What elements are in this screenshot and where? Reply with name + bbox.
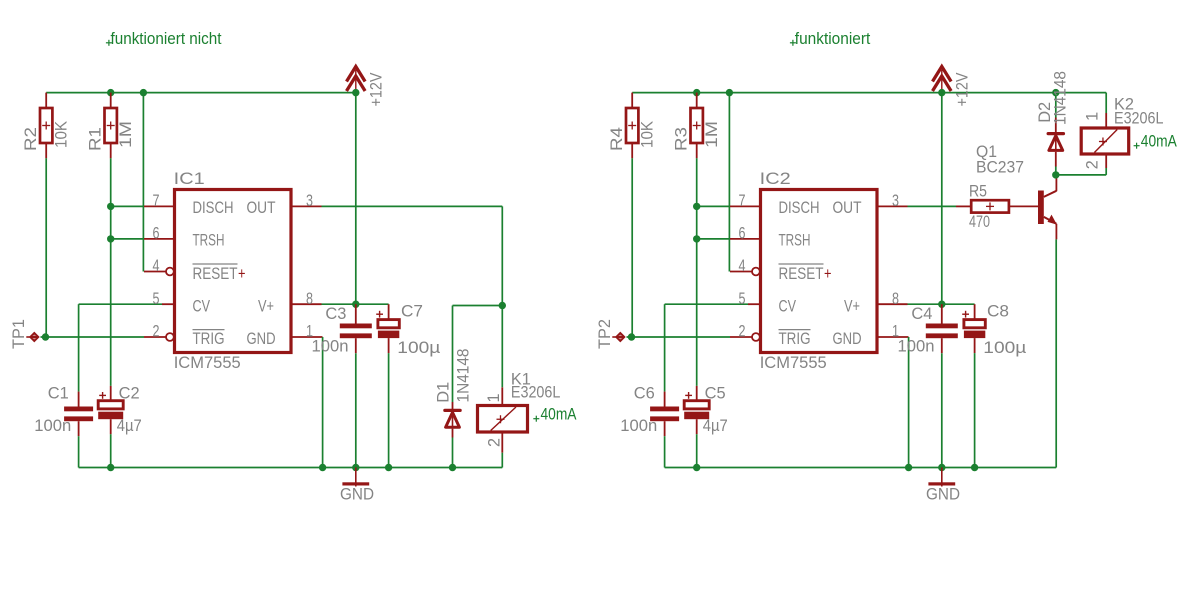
wire C7 bottom to ground rail (388, 353, 390, 467)
test point TP2 label (595, 319, 614, 349)
capacitor C5 negative plate (684, 412, 709, 420)
wire TRSH to IC2 pin 6 (697, 238, 730, 240)
title text 'funktioniert' (795, 29, 871, 48)
relay K2 label (1114, 94, 1134, 113)
diode D2 label (1035, 102, 1054, 123)
resistor R2 top pin (45, 93, 47, 108)
capacitor C7 label (401, 301, 423, 320)
svg-text:DISCH: DISCH (193, 198, 234, 217)
IC IC1 pin number 7 (153, 191, 160, 210)
wire R1/DISCH/TRSH column (110, 158, 112, 386)
resistor R3 origin cross (693, 122, 701, 130)
IC IC2 pin number 4 (739, 256, 746, 275)
IC IC2 pin 8 stub (877, 303, 908, 305)
wire C8 bottom to ground rail (974, 353, 976, 467)
IC IC2 pin 5 stub (748, 303, 761, 305)
capacitor C6 top plate (650, 407, 679, 412)
wire D1 bottom to ground rail (452, 438, 454, 468)
test point TP2 symbol (612, 332, 625, 343)
diode D1 label (434, 382, 453, 403)
svg-text:ICM7555: ICM7555 (174, 353, 241, 372)
IC IC1 pin name TRSH (193, 231, 225, 250)
junction TP2 node (628, 333, 635, 340)
diode D2 bottom lead (1055, 152, 1057, 167)
IC IC2 pin name OUT (833, 198, 862, 217)
relay K2 current label 40mA (1141, 132, 1178, 151)
transistor Q1 label (976, 142, 997, 161)
transistor Q1 base bar (1038, 191, 1044, 225)
IC IC1 pin 2 stub (144, 336, 166, 338)
wire K1 pin 2 to ground rail (501, 453, 503, 468)
resistor R5 label (969, 182, 987, 201)
relay K1 label (511, 370, 531, 389)
capacitor C3 top plate (340, 324, 372, 329)
svg-text:+: + (824, 264, 832, 283)
IC IC2 designator (760, 169, 791, 188)
capacitor C8 label (987, 301, 1009, 320)
svg-text:10K: 10K (638, 120, 657, 148)
svg-text:100n: 100n (34, 416, 71, 435)
capacitor C5 positive plate (684, 401, 709, 409)
relay K1 diagonal (491, 407, 516, 431)
capacitor C3 value 100n (312, 336, 349, 355)
svg-text:TRIG: TRIG (779, 329, 811, 348)
IC IC2 pin name GND (833, 329, 862, 348)
wire R3/DISCH/TRSH column (696, 158, 698, 386)
svg-text:1: 1 (1083, 112, 1102, 121)
capacitor C7 top pin (388, 304, 390, 320)
relay K1 pin number 2 (484, 438, 503, 447)
svg-text:2: 2 (739, 322, 746, 341)
capacitor C1 value 100n (34, 416, 71, 435)
capacitor C6 bottom pin (664, 421, 666, 436)
wire CV column to C6 (664, 304, 666, 391)
IC IC2 TRIG overline (779, 329, 811, 331)
svg-text:TP2: TP2 (595, 319, 614, 349)
IC IC1 designator (174, 169, 205, 188)
IC IC2 pin 4 inversion bubble (752, 268, 760, 276)
IC IC1 body box (175, 190, 292, 353)
wire +12V rail to IC2 pin 4 (RESET) (728, 93, 730, 272)
IC IC1 pin 7 stub (144, 205, 175, 207)
wire IC1 pin 1 (GND) down (322, 337, 324, 468)
wire +12V rail to IC1 pin 4 (RESET) (142, 93, 144, 272)
ground symbol (928, 468, 955, 487)
wire relay node to K1 pin 1 (501, 306, 503, 388)
junction D1 on ground rail (449, 464, 456, 471)
wire C3 bottom to ground rail (355, 353, 357, 467)
svg-text:100µ: 100µ (983, 338, 1026, 357)
capacitor C7 negative plate (378, 331, 399, 339)
resistor R5 origin cross (986, 202, 994, 210)
capacitor C1 label (48, 384, 69, 403)
IC IC1 pin 1 stub (291, 336, 323, 338)
IC IC2 body box (761, 190, 878, 353)
svg-text:R5: R5 (969, 182, 987, 201)
svg-text:R1: R1 (85, 127, 104, 151)
svg-text:IC2: IC2 (760, 169, 791, 188)
diode D1 lead (452, 410, 454, 427)
capacitor C2 value 4µ7 (117, 416, 142, 435)
capacitor C1 bottom pin (78, 421, 80, 436)
capacitor C7 plus mark (376, 311, 383, 318)
relay K1 pin 1 stub (501, 387, 503, 405)
wire D2 top from +12V rail (1055, 93, 1057, 118)
relay K1 current label 40mA (541, 405, 578, 424)
svg-text:6: 6 (153, 224, 160, 243)
title text 'funktioniert nicht' origin cross (106, 40, 112, 46)
wire TRSH to IC1 pin 6 (111, 238, 144, 240)
IC IC2 pin name TRIG (779, 329, 811, 348)
svg-text:RESET: RESET (779, 264, 824, 283)
junction V+/C3/C7 node (352, 301, 359, 308)
+12V net label (953, 72, 972, 107)
resistor R1 label (85, 127, 104, 151)
svg-text:8: 8 (892, 289, 899, 308)
relay K1 origin cross (497, 415, 505, 423)
resistor R3 body (691, 108, 703, 143)
capacitor C1 top plate (64, 407, 93, 412)
wire IC1 pin 5 (CV) horizontal (79, 303, 163, 305)
junction TP1 node (42, 333, 49, 340)
relay K2 origin cross (1099, 138, 1107, 146)
capacitor C8 plus mark (962, 311, 969, 318)
capacitor C3 bottom pin (355, 338, 357, 353)
resistor R2 origin cross (42, 122, 50, 130)
IC IC1 pin name DISCH (193, 198, 234, 217)
svg-text:5: 5 (739, 289, 746, 308)
junction R1 top on +12V rail (107, 89, 114, 96)
capacitor C5 bottom pin (696, 419, 698, 434)
svg-text:GND: GND (926, 485, 960, 504)
IC IC2 pin number 6 (739, 224, 746, 243)
svg-text:100n: 100n (898, 336, 935, 355)
wire C1 bottom to ground rail (78, 436, 80, 467)
IC IC1 pin name V+ (258, 296, 274, 315)
svg-text:10K: 10K (52, 120, 71, 148)
IC IC1 pin name CV (193, 296, 211, 315)
IC IC1 pin name GND (247, 329, 276, 348)
wire +12V rail corner down to K2 pin 1 (1105, 93, 1107, 113)
junction C3/GND on ground rail (352, 464, 359, 471)
svg-text:4: 4 (739, 256, 746, 275)
resistor R5 left pin (956, 205, 971, 207)
svg-text:IC1: IC1 (174, 169, 205, 188)
svg-text:C6: C6 (634, 384, 655, 403)
IC IC2 value ICM7555 (760, 353, 827, 372)
IC IC2 pin number 3 (892, 191, 899, 210)
diode D1 cathode bar (445, 409, 460, 412)
capacitor C3 label (325, 304, 346, 323)
IC IC2 pin 7 stub (730, 205, 761, 207)
junction C2 on ground rail (107, 464, 114, 471)
svg-text:GND: GND (833, 329, 862, 348)
capacitor C8 value 100µ (983, 338, 1026, 357)
junction D2 top on +12V rail (1052, 89, 1059, 96)
relay K2 coil box (1081, 128, 1129, 154)
IC IC2 pin number 5 (739, 289, 746, 308)
svg-text:1N4148: 1N4148 (454, 349, 473, 403)
svg-text:E3206L: E3206L (1114, 109, 1164, 128)
svg-text:E3206L: E3206L (511, 383, 561, 402)
capacitor C1 top pin (78, 392, 80, 408)
svg-text:C8: C8 (987, 301, 1009, 320)
svg-text:C1: C1 (48, 384, 69, 403)
wire +12V top rail (left circuit) (46, 92, 356, 94)
capacitor C7 bottom pin (388, 338, 390, 353)
IC IC1 value ICM7555 (174, 353, 241, 372)
diode D1 bottom lead (452, 429, 454, 438)
svg-text:V+: V+ (258, 296, 274, 315)
capacitor C4 top pin (941, 304, 943, 324)
+12V supply symbol (933, 67, 952, 93)
+12V supply symbol (347, 67, 366, 93)
resistor R4 label (607, 127, 626, 151)
wire IC2 pin 3 (OUT) to R5 (908, 205, 957, 207)
wire R4 to TP2 node (631, 158, 633, 337)
IC IC2 pin name DISCH (779, 198, 820, 217)
wire IC2 pin 8 (V+) to +12V column (908, 303, 942, 305)
svg-text:100n: 100n (620, 416, 657, 435)
wire Q1 collector to D2/K2 node (1055, 175, 1057, 178)
capacitor C8 positive plate (964, 320, 985, 328)
svg-text:D1: D1 (434, 382, 453, 403)
IC IC2 pin name V+ (844, 296, 860, 315)
svg-text:TP1: TP1 (9, 319, 28, 349)
capacitor C4 top plate (926, 324, 958, 329)
svg-text:C7: C7 (401, 301, 423, 320)
title text 'funktioniert' origin cross (790, 40, 796, 46)
svg-text:TRSH: TRSH (779, 231, 811, 250)
capacitor C5 plus mark (685, 392, 692, 399)
wire +12V column down (355, 93, 357, 305)
IC IC1 RESET overline (193, 263, 238, 265)
svg-text:2: 2 (484, 438, 503, 447)
wire D2 bottom to node (1055, 167, 1057, 175)
junction R3 top on +12V rail (693, 89, 700, 96)
GND net label (926, 485, 960, 504)
IC IC2 pin name RESET (779, 264, 824, 283)
diode D2 value 1N4148 (1051, 71, 1070, 125)
wire DISCH to IC2 pin 7 (697, 205, 730, 207)
resistor R1 top pin (110, 93, 112, 108)
svg-text:2: 2 (1083, 160, 1102, 169)
IC IC1 pin name OUT (247, 198, 276, 217)
wire OUT vertical to relay node (501, 206, 503, 305)
junction OUT/D1/K1 node (499, 302, 506, 309)
svg-text:R2: R2 (21, 127, 40, 151)
diode D1 value 1N4148 (454, 349, 473, 403)
capacitor C2 positive plate (98, 401, 123, 409)
IC IC1 pin 2 inversion bubble (166, 333, 174, 341)
wire Q1 emitter to ground rail (1055, 239, 1057, 467)
svg-text:R3: R3 (671, 127, 690, 151)
IC IC1 TRIG overline (193, 329, 225, 331)
resistor R4 body (626, 108, 638, 143)
svg-text:1M: 1M (702, 121, 721, 148)
svg-text:3: 3 (892, 191, 899, 210)
svg-text:DISCH: DISCH (779, 198, 820, 217)
test point TP1 label (9, 319, 28, 349)
capacitor C6 value 100n (620, 416, 657, 435)
IC IC2 pin 1 stub (877, 336, 909, 338)
svg-text:100n: 100n (312, 336, 349, 355)
IC IC1 pin number 4 (153, 256, 160, 275)
svg-text:OUT: OUT (833, 198, 862, 217)
resistor R3 label (671, 127, 690, 151)
junction DISCH node (right) (693, 203, 700, 210)
junction RESET column on +12V rail (140, 89, 147, 96)
ground symbol (342, 468, 369, 487)
wire ground rail (right circuit) (665, 467, 1057, 469)
relay K1 pin 2 stub (501, 432, 503, 453)
wire DISCH to IC1 pin 7 (111, 205, 144, 207)
resistor R3 value 1M (702, 121, 721, 148)
svg-text:4: 4 (153, 256, 160, 275)
svg-text:R4: R4 (607, 127, 626, 151)
relay K2 pin number 2 (1083, 160, 1102, 169)
relay K1 coil box (478, 406, 528, 433)
svg-text:CV: CV (193, 296, 211, 315)
wire ground rail (left circuit) (79, 467, 503, 469)
junction at +12V symbol (352, 89, 359, 96)
diode D1 triangle (446, 412, 460, 427)
relay K2 pin 1 stub (1105, 113, 1107, 128)
IC IC1 pin number 2 (153, 322, 160, 341)
svg-text:funktioniert: funktioniert (795, 29, 871, 48)
capacitor C2 bottom pin (110, 419, 112, 434)
svg-text:6: 6 (739, 224, 746, 243)
capacitor C4 value 100n (898, 336, 935, 355)
svg-text:C4: C4 (911, 304, 932, 323)
svg-text:ICM7555: ICM7555 (760, 353, 827, 372)
wire R2 to TP1 node (45, 158, 47, 337)
wire C2 bottom to ground rail (110, 434, 112, 467)
IC IC2 pin number 8 (892, 289, 899, 308)
resistor R5 body (971, 200, 1009, 212)
diode D1 top lead (452, 402, 454, 410)
IC IC2 pin 4 stub (730, 271, 752, 273)
junction TRSH node (107, 235, 114, 242)
capacitor C3 bottom plate (340, 333, 372, 338)
svg-text:40mA: 40mA (1141, 132, 1178, 151)
svg-text:1: 1 (484, 394, 503, 403)
svg-text:GND: GND (340, 485, 374, 504)
IC IC1 RESET plus mark (238, 264, 246, 283)
svg-text:3: 3 (306, 191, 313, 210)
resistor R1 bottom pin (110, 143, 112, 158)
IC IC2 pin 6 stub (730, 238, 761, 240)
relay K1 current label origin cross (533, 416, 539, 422)
wire K2 pin 2 to node (1056, 174, 1106, 176)
IC IC2 RESET plus mark (824, 264, 832, 283)
wire V+ node to C8 (942, 303, 975, 305)
capacitor C4 label (911, 304, 932, 323)
IC IC1 pin name TRIG (193, 329, 225, 348)
capacitor C8 top pin (974, 304, 976, 320)
svg-text:8: 8 (306, 289, 313, 308)
svg-text:OUT: OUT (247, 198, 276, 217)
svg-text:100µ: 100µ (397, 338, 440, 357)
IC IC1 pin 8 stub (291, 303, 322, 305)
resistor R4 bottom pin (631, 143, 633, 158)
svg-text:+12V: +12V (367, 72, 386, 107)
capacitor C4 bottom pin (941, 338, 943, 353)
wire C5 bottom to ground rail (696, 434, 698, 467)
wire IC2 pin 5 (CV) horizontal (665, 303, 749, 305)
wire TP2 to IC2 pin 2 (TRIG) (627, 336, 731, 338)
svg-text:40mA: 40mA (541, 405, 578, 424)
junction C5 on ground rail (693, 464, 700, 471)
svg-text:C3: C3 (325, 304, 346, 323)
capacitor C7 value 100µ (397, 338, 440, 357)
IC IC1 pin number 3 (306, 191, 313, 210)
capacitor C5 label (705, 384, 726, 403)
IC IC2 pin name CV (779, 296, 797, 315)
IC IC2 pin number 2 (739, 322, 746, 341)
IC IC1 pin number 8 (306, 289, 313, 308)
svg-text:470: 470 (969, 212, 990, 231)
wire D1 top vertical (452, 306, 454, 403)
relay K2 diagonal (1094, 130, 1117, 153)
wire TP1 to IC1 pin 2 (TRIG) (41, 336, 145, 338)
svg-text:GND: GND (247, 329, 276, 348)
capacitor C2 top pin (110, 386, 112, 402)
wire IC1 pin 8 (V+) to +12V column (322, 303, 356, 305)
svg-text:C5: C5 (705, 384, 726, 403)
junction TRSH node (right) (693, 235, 700, 242)
svg-text:+: + (238, 264, 246, 283)
IC IC1 pin 4 inversion bubble (166, 268, 174, 276)
capacitor C7 positive plate (378, 320, 399, 328)
relay K2 value E3206L (1114, 109, 1164, 128)
resistor R2 bottom pin (45, 143, 47, 158)
junction C8 on ground rail (971, 464, 978, 471)
svg-text:5: 5 (153, 289, 160, 308)
wire C4 bottom to ground rail (941, 353, 943, 467)
IC IC2 pin 2 stub (730, 336, 752, 338)
capacitor C6 label (634, 384, 655, 403)
wire CV column to C1 (78, 304, 80, 391)
wire +12V column down (right) (941, 93, 943, 305)
wire relay node to D1 top (453, 305, 503, 307)
transistor Q1 emitter (1044, 215, 1057, 240)
capacitor C2 plus mark (99, 392, 106, 399)
IC IC1 pin number 5 (153, 289, 160, 308)
IC IC1 pin 6 stub (144, 238, 175, 240)
capacitor C8 bottom pin (974, 338, 976, 353)
wire IC2 pin 1 (GND) down (908, 337, 910, 468)
IC IC1 pin number 6 (153, 224, 160, 243)
svg-text:7: 7 (153, 191, 160, 210)
capacitor C5 value 4µ7 (703, 416, 728, 435)
svg-text:4µ7: 4µ7 (117, 416, 142, 435)
IC IC1 pin 4 stub (144, 271, 166, 273)
wire C6 bottom to ground rail (664, 436, 666, 467)
capacitor C2 negative plate (98, 412, 123, 420)
IC IC1 pin name RESET (193, 264, 238, 283)
capacitor C8 negative plate (964, 331, 985, 339)
svg-text:RESET: RESET (193, 264, 238, 283)
svg-text:TRSH: TRSH (193, 231, 225, 250)
resistor R2 body (40, 108, 52, 143)
junction IC2 GND on ground rail (905, 464, 912, 471)
title text 'funktioniert nicht' (111, 29, 222, 48)
svg-text:CV: CV (779, 296, 797, 315)
IC IC2 pin 3 stub (877, 205, 908, 207)
diode D2 triangle (1049, 136, 1063, 151)
resistor R2 label (21, 127, 40, 151)
